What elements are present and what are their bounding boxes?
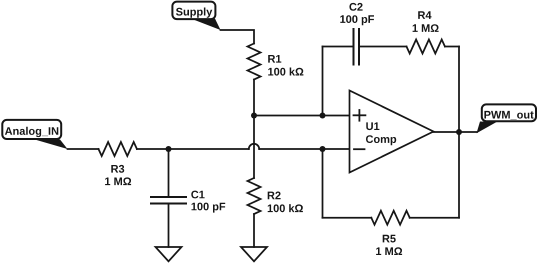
wire Supply to R1	[221, 30, 255, 44]
wire bottom feedback to R5	[323, 217, 372, 219]
wire R2 to ground	[253, 214, 255, 247]
wire hop to node D	[259, 148, 322, 150]
resistor R4	[407, 40, 445, 54]
net label PWM_out text	[484, 111, 533, 120]
wire R5 to right rail	[410, 217, 459, 219]
wire R1 bottom to node A	[253, 80, 255, 116]
node A junction R1/R2/+input	[251, 113, 257, 119]
wire node C to hop	[169, 148, 249, 150]
capacitor C2	[354, 29, 360, 65]
resistor R2	[248, 178, 261, 214]
net flag Analog_IN	[2, 120, 67, 149]
wire hop over R1-R2 rail	[249, 144, 259, 149]
value label C2 100 pF	[340, 3, 374, 25]
value label C1 100 pF	[191, 191, 225, 213]
wire R3 to node C	[137, 148, 169, 150]
wire right rail vertical	[458, 47, 460, 218]
value label R1 100 kOhm	[268, 55, 303, 76]
node D junction feedback tap	[320, 146, 326, 152]
ground symbol at C1	[156, 247, 182, 261]
wire op-amp output	[434, 131, 478, 133]
wire node A to op-amp + input	[254, 115, 350, 117]
net flag Supply	[172, 2, 220, 30]
wire node A down to R2	[253, 116, 255, 179]
resistor R5	[371, 211, 409, 225]
wire C2 to R4	[359, 46, 407, 48]
wire Analog_IN to R3	[68, 148, 99, 150]
value label R2 100 kOhm	[268, 192, 303, 213]
node C junction C1 tap	[166, 146, 172, 152]
resistor R3	[99, 142, 137, 156]
ground symbol at R2	[241, 247, 267, 261]
op-amp U1 triangle	[350, 91, 434, 173]
op-amp - input symbol	[354, 148, 365, 150]
wire node C down to C1	[168, 149, 170, 197]
value label R4 1 MOhm	[413, 11, 439, 32]
net flag PWM_out	[477, 104, 537, 133]
value label R3 1 MOhm	[105, 165, 131, 185]
wire top feedback left	[323, 46, 354, 48]
capacitor C1	[151, 197, 186, 204]
value label R5 1 MOhm	[376, 235, 402, 255]
node E output junction	[456, 129, 462, 135]
wire R4 to right rail	[445, 46, 459, 48]
wire node D down feedback	[322, 149, 324, 218]
resistor R1	[248, 44, 261, 80]
wire node B up to C2	[322, 47, 324, 116]
net label Supply text	[176, 8, 212, 18]
wire C1 to ground	[168, 204, 170, 248]
net label Analog_IN text	[5, 127, 58, 137]
op-amp + input symbol	[354, 110, 366, 121]
node B junction C2 stem	[320, 113, 326, 119]
wire node D to op-amp - input	[323, 148, 350, 150]
designator label U1 Comp	[366, 122, 396, 145]
